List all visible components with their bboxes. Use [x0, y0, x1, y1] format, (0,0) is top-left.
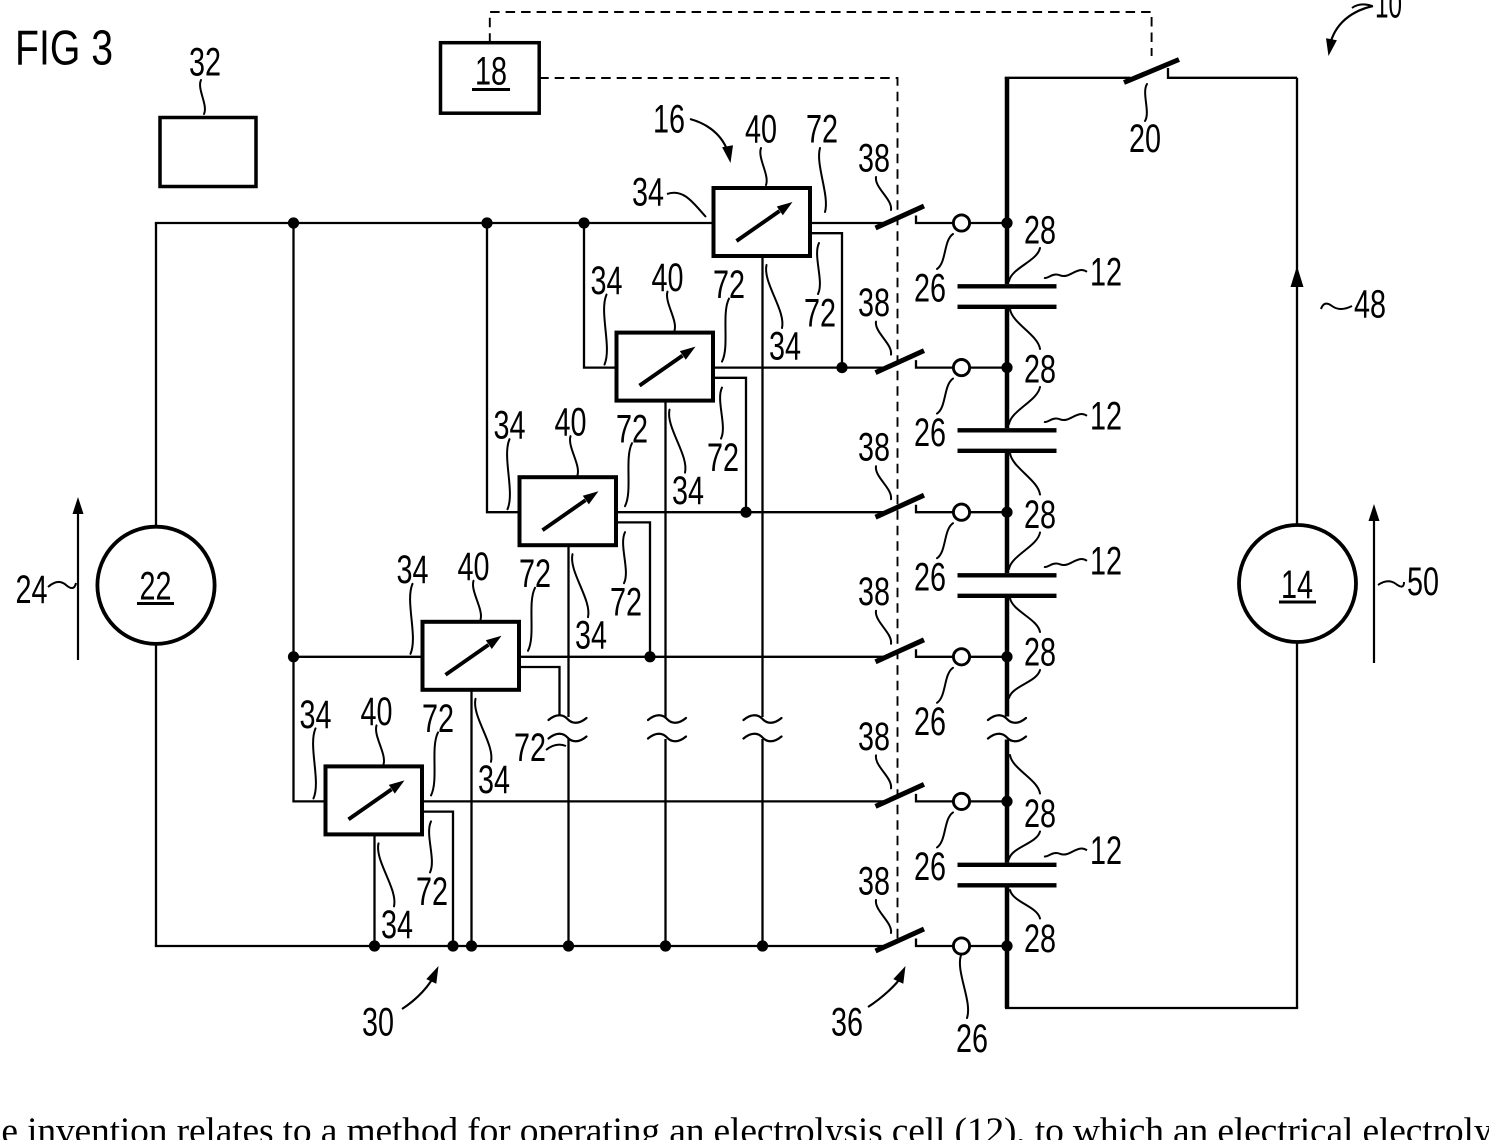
leader 72 converter 2: [722, 299, 729, 362]
svg-text:34: 34: [478, 758, 510, 802]
label 26 row 4: [914, 700, 946, 744]
terminal circle 26 row 1: [953, 215, 969, 231]
tilde leader 50: [1378, 581, 1404, 586]
svg-text:28: 28: [1024, 208, 1056, 252]
wire circle 26 to cell stack row 3: [970, 511, 1007, 513]
leader 34 converter 1: [667, 193, 706, 217]
label 72 output converter 4: [519, 552, 551, 596]
svg-text:26: 26: [914, 700, 946, 744]
label 26 row 2: [914, 411, 946, 455]
converter 16 unit 5 box: [326, 766, 423, 834]
tilde before 10: [1352, 4, 1372, 8]
svg-text:12: 12: [1090, 394, 1122, 438]
break symbol on converter 2 wire: [648, 715, 686, 741]
leader 38 row 3: [876, 466, 891, 499]
branch wire to converter 4: [294, 656, 423, 658]
node cell stack tap row 4: [1001, 651, 1012, 662]
leader 28 row 4 down: [1009, 670, 1040, 698]
leader 72 converter 3: [625, 443, 632, 506]
label 26 row 5: [914, 845, 946, 889]
leader 28 row 3 up: [1010, 453, 1040, 495]
leader 34 converter 5: [313, 728, 316, 798]
arrow from 10 into circuit: [1326, 6, 1373, 56]
switch 20 blade: [1124, 60, 1179, 83]
converter 16 unit 1 box: [714, 188, 811, 256]
label 34 second input converter 1: [769, 324, 801, 368]
cell stack bus segment y77-284: [1005, 78, 1010, 284]
leader 34 converter 4: [410, 584, 413, 654]
svg-text:26: 26: [914, 556, 946, 600]
wire converter 5 output to switch 5: [422, 800, 884, 802]
svg-text:18: 18: [475, 49, 507, 93]
converter 16 unit 4 box: [423, 622, 520, 690]
leader 28 row 5 up: [1010, 755, 1040, 794]
svg-text:10: 10: [1375, 0, 1402, 27]
wire converter 2 output to switch 2: [713, 366, 884, 368]
label 34 second input converter 5: [381, 903, 413, 947]
wire converter 1 output to switch 1: [810, 222, 884, 224]
label 38 row 2: [858, 281, 890, 325]
label 28 row 2: [1024, 347, 1056, 391]
switch 38 blade row 6: [876, 929, 925, 951]
svg-text:26: 26: [956, 1017, 988, 1061]
node converter 3 second input on bottom bus: [563, 940, 574, 951]
adjustability arrow inside converter 2: [640, 347, 696, 386]
label 24: [16, 568, 48, 612]
leader 28 row 1 down: [1009, 248, 1040, 281]
label 34 input converter 3: [494, 404, 526, 448]
leader 12 cell 3: [1044, 559, 1087, 567]
wire 72 lower output of converter 4 (to break): [519, 667, 560, 716]
svg-text:16: 16: [653, 97, 685, 141]
wire 34 second input of converter 3 (lower part): [567, 739, 569, 946]
switch 38 contact row 3: [916, 505, 953, 513]
svg-text:72: 72: [514, 726, 546, 770]
node converter 4 second input on bottom bus: [466, 940, 477, 951]
svg-text:26: 26: [914, 411, 946, 455]
wire circle 26 to cell stack row 4: [970, 656, 1007, 658]
terminal circle 26 row 5: [953, 793, 969, 809]
label 48: [1354, 282, 1386, 326]
leader 40 converter 1: [760, 148, 766, 185]
svg-text:26: 26: [914, 266, 946, 310]
label 12 cell 4: [1090, 829, 1122, 873]
svg-text:The invention relates to a met: The invention relates to a method for op…: [0, 1111, 1489, 1140]
label 34 input converter 2: [591, 259, 623, 303]
svg-text:50: 50: [1407, 560, 1439, 604]
label 72 lower output converter 5: [416, 870, 448, 914]
leader 40 converter 4: [473, 581, 481, 620]
switch 38 blade row 3: [876, 495, 925, 517]
wire source 22 top to top bus: [155, 223, 157, 527]
svg-text:22: 22: [140, 564, 172, 608]
label 34 input converter 4: [397, 548, 429, 592]
label 30: [362, 1000, 394, 1044]
arrow 16 to converter 1: [690, 119, 733, 163]
wire 34 second input of converter 1 (lower part): [761, 739, 763, 946]
wire 34 second input of converter 5: [373, 833, 375, 946]
svg-text:34: 34: [769, 324, 801, 368]
dashed control line 18 to switches 38: [539, 78, 897, 944]
wire 34 second input of converter 2 (upper part): [664, 400, 666, 717]
leader 26 row 1: [937, 234, 953, 269]
node converter 1 output joins row 2: [836, 362, 847, 373]
switch 38 contact row 1: [916, 216, 953, 224]
wire 72 lower output of converter 5 to bottom bus: [422, 812, 454, 946]
label 34 second input converter 3: [575, 614, 607, 658]
bottom return wire: [1005, 1007, 1298, 1009]
label 38 row 4: [858, 570, 890, 614]
label 38 row 1: [858, 136, 890, 180]
node converter 2 output joins row 3: [740, 507, 751, 518]
svg-text:26: 26: [914, 845, 946, 889]
leader 34 second input converter 3: [572, 554, 588, 617]
electrolysis cell 12 number 2 plates: [958, 430, 1057, 451]
label 72 lower output converter 3: [610, 581, 642, 625]
leader 34 second input converter 1: [766, 265, 782, 328]
node converter 2 second input on bottom bus: [660, 940, 671, 951]
leader 34 second input converter 2: [669, 410, 685, 473]
leader 26 row 3: [937, 523, 953, 558]
svg-text:72: 72: [806, 107, 838, 151]
feeder wire to converter 3: [487, 223, 520, 512]
label 38 row 6: [858, 859, 890, 903]
label 72 lower output converter 2: [707, 436, 739, 480]
converter 16 unit 2 box: [617, 333, 714, 401]
wire source 22 bottom to bottom bus: [155, 644, 157, 946]
svg-text:28: 28: [1024, 917, 1056, 961]
svg-text:28: 28: [1024, 493, 1056, 537]
svg-text:34: 34: [632, 170, 664, 214]
wire converter 4 output to switch 4: [519, 656, 884, 658]
switch 38 blade row 1: [876, 206, 925, 228]
electrolyser supply circle 14: [1239, 525, 1356, 642]
wire 34 second input of converter 2 (lower part): [664, 739, 666, 946]
svg-text:38: 38: [858, 859, 890, 903]
leader 38 row 5: [876, 755, 891, 788]
cell stack bus segment y598-716: [1005, 598, 1010, 717]
label 26 row 1: [914, 266, 946, 310]
svg-text:38: 38: [858, 715, 890, 759]
label 72 output converter 2: [713, 263, 745, 307]
label 36: [831, 1000, 863, 1044]
switch 38 blade row 5: [876, 784, 925, 806]
terminal circle 26 row 2: [953, 360, 969, 376]
svg-text:72: 72: [610, 581, 642, 625]
wire 72 lower output of converter 2: [713, 378, 747, 512]
leader 28 row 4 up: [1010, 598, 1040, 632]
label 72 output converter 3: [616, 408, 648, 452]
node on top bus x=293: [288, 217, 299, 228]
node cell stack tap row 2: [1001, 362, 1012, 373]
svg-text:38: 38: [858, 136, 890, 180]
label 38 row 5: [858, 715, 890, 759]
svg-text:38: 38: [858, 570, 890, 614]
label 40 converter 3: [555, 401, 587, 445]
label 38 row 3: [858, 426, 890, 470]
label 72 lower output converter 1: [804, 291, 836, 335]
leader 72 lower converter 1: [817, 243, 820, 294]
leader 72 converter 4: [528, 588, 535, 651]
switch 38 contact row 6: [916, 939, 953, 947]
svg-text:24: 24: [16, 568, 48, 612]
adjustability arrow inside converter 3: [543, 491, 599, 530]
leader 34 converter 3: [507, 439, 510, 509]
adjustability arrow inside converter 4: [446, 636, 502, 675]
label 34 second input converter 4: [478, 758, 510, 802]
label 26 row 3: [914, 556, 946, 600]
leader 40 converter 5: [376, 725, 384, 764]
node converter 5 output on bottom bus: [447, 940, 458, 951]
svg-text:48: 48: [1354, 282, 1386, 326]
voltage source 22 circle: [97, 527, 214, 644]
svg-text:34: 34: [381, 903, 413, 947]
leader 40 converter 2: [667, 292, 675, 331]
label 28 row 6: [1024, 917, 1056, 961]
label 50: [1407, 560, 1439, 604]
svg-text:28: 28: [1024, 347, 1056, 391]
controller box 32: [160, 118, 256, 187]
label 72 output converter 5: [422, 697, 454, 741]
switch 38 blade row 4: [876, 640, 925, 662]
svg-text:72: 72: [804, 291, 836, 335]
switch 38 blade row 2: [876, 351, 925, 373]
label 22 (underlined): [137, 564, 174, 608]
cell stack bus segment y453-573: [1005, 453, 1010, 573]
adjustability arrow inside converter 1: [737, 202, 793, 241]
feeder wire to converter 2: [584, 223, 618, 368]
svg-text:28: 28: [1024, 792, 1056, 836]
node on top bus x=584: [578, 217, 589, 228]
wire 34 second input of converter 3 (upper part): [567, 544, 569, 717]
node on top bus x=487: [481, 217, 492, 228]
svg-text:34: 34: [672, 469, 704, 513]
label 40 converter 1: [745, 107, 777, 151]
wire cell stack top to switch 20: [1005, 77, 1131, 79]
leader 26 row 5: [937, 812, 953, 847]
leader 12 cell 1: [1044, 270, 1087, 278]
label 12 cell 2: [1090, 394, 1122, 438]
svg-text:14: 14: [1281, 563, 1313, 607]
leader 38 row 2: [876, 322, 891, 355]
electrolysis cell 12 number 4 plates: [958, 865, 1057, 886]
node cell stack tap row 3: [1001, 507, 1012, 518]
node cell stack tap row 6: [1001, 940, 1012, 951]
leader 26 row 6: [960, 955, 968, 1018]
wire circle 26 to cell stack row 6: [970, 945, 1007, 947]
leader 72 converter 5: [431, 732, 438, 795]
svg-text:FIG 3: FIG 3: [15, 22, 113, 76]
label 34 input converter 1: [632, 170, 664, 214]
right loop wire from 14 to bottom: [1296, 642, 1298, 1008]
leader 38 row 1: [876, 177, 891, 210]
leader 28 row 5 down: [1009, 832, 1040, 860]
label 12 cell 1: [1090, 250, 1122, 294]
label 40 converter 2: [652, 256, 684, 300]
leader 38 row 6: [876, 900, 891, 933]
leader 34 second input converter 4: [475, 699, 491, 762]
leader 72 converter 1: [819, 148, 826, 212]
switch 38 contact row 2: [916, 360, 953, 368]
label 40 converter 5: [361, 690, 393, 734]
label 32: [189, 40, 221, 84]
label 10: [1375, 0, 1402, 27]
right loop wire down to electrolyser 14: [1296, 78, 1298, 526]
svg-text:30: 30: [362, 1000, 394, 1044]
leader 72 lower converter 3: [623, 532, 626, 583]
wire converter 3 output to switch 3: [616, 511, 884, 513]
dashed control line 18 to switch 20: [490, 12, 1152, 56]
label 72 at break: [514, 726, 546, 770]
svg-text:12: 12: [1090, 539, 1122, 583]
tilde leader 48: [1321, 304, 1352, 309]
terminal circle 26 row 3: [953, 504, 969, 520]
leader 72 lower converter 2: [720, 388, 723, 439]
cell stack bus segment y739-862: [1005, 740, 1010, 863]
label 40 converter 4: [458, 545, 490, 589]
svg-text:72: 72: [707, 436, 739, 480]
wire circle 26 to cell stack row 2: [970, 366, 1007, 368]
label 12 cell 3: [1090, 539, 1122, 583]
svg-text:36: 36: [831, 1000, 863, 1044]
label 72 output converter 1: [806, 107, 838, 151]
label 34 second input converter 2: [672, 469, 704, 513]
leader 34 second input converter 5: [378, 843, 394, 906]
terminal circle 26 row 6: [953, 938, 969, 954]
wire circle 26 to cell stack row 5: [970, 800, 1007, 802]
leader 40 converter 3: [570, 436, 578, 475]
leader 28 row 3 down: [1009, 533, 1040, 570]
adjustability arrow inside converter 5: [349, 780, 405, 819]
leader 28 row 2 down: [1009, 387, 1040, 424]
break symbol on converter 1 wire: [744, 715, 782, 741]
leader 34 converter 2: [604, 295, 607, 365]
svg-text:34: 34: [575, 614, 607, 658]
switch 38 contact row 4: [916, 649, 953, 657]
node cell stack tap row 5: [1001, 796, 1012, 807]
label 16: [653, 97, 685, 141]
figure title FIG 3: [15, 22, 113, 76]
leader 12 cell 4: [1044, 849, 1087, 857]
arrow 36 to switch bank: [868, 966, 906, 1007]
cell stack bus segment y309-428: [1005, 309, 1010, 428]
node converter 1 second input on bottom bus: [757, 940, 768, 951]
electrolysis cell 12 number 1 plates: [958, 286, 1057, 307]
label 18 (underlined): [472, 49, 510, 93]
leader 26 row 4: [937, 668, 953, 703]
arrow 24 (input voltage): [73, 497, 84, 660]
leader 72 lower converter 5: [429, 821, 432, 872]
arrow 50 (output voltage): [1369, 504, 1380, 663]
leader from label 32 to box 32: [200, 80, 205, 114]
leader 26 row 2: [937, 379, 953, 414]
svg-text:38: 38: [858, 281, 890, 325]
label 14 (underlined): [1279, 563, 1316, 607]
leader 28 row 2 up: [1010, 309, 1040, 349]
bottom input bus: [155, 945, 884, 947]
svg-text:12: 12: [1090, 250, 1122, 294]
tilde leader 72 at break: [546, 745, 566, 750]
label 28 row 4: [1024, 630, 1056, 674]
svg-text:28: 28: [1024, 630, 1056, 674]
break symbol on cell stack bus: [988, 715, 1026, 741]
converter 16 unit 3 box: [520, 477, 617, 545]
terminal circle 26 row 4: [953, 649, 969, 665]
leader 12 cell 2: [1044, 414, 1087, 422]
cell stack bus segment y887-1008: [1005, 888, 1010, 1009]
top input bus: [155, 222, 714, 224]
caption text (clipped): [0, 1111, 1489, 1140]
switch 20 contact: [1168, 68, 1297, 78]
svg-text:32: 32: [189, 40, 221, 84]
current direction arrowhead 48: [1291, 266, 1304, 287]
svg-text:38: 38: [858, 426, 890, 470]
arrow 30 to bottom bus: [402, 966, 439, 1009]
label 28 row 3: [1024, 493, 1056, 537]
svg-text:20: 20: [1129, 117, 1161, 161]
wire 34 second input of converter 1 (upper part): [761, 255, 763, 717]
cell stack bus to bottom return: [1006, 943, 1008, 1008]
leader 20: [1145, 84, 1147, 121]
node converter 5 second input on bottom bus: [369, 940, 380, 951]
node converter 3 output joins row 4: [644, 651, 655, 662]
leader 28 row 6 up: [1010, 890, 1040, 919]
wire circle 26 to cell stack row 1: [970, 222, 1007, 224]
node cell stack tap row 1: [1001, 217, 1012, 228]
wire 72 lower output of converter 1: [810, 233, 843, 367]
control unit U18 box: [441, 43, 540, 114]
svg-text:72: 72: [416, 870, 448, 914]
leader 38 row 4: [876, 611, 891, 644]
label 34 input converter 5: [300, 693, 332, 737]
break symbol on converter3/4 wires: [549, 715, 587, 741]
label 26 row 6: [956, 1017, 988, 1061]
wire 34 second input of converter 4: [470, 689, 472, 946]
svg-text:12: 12: [1090, 829, 1122, 873]
feeder wire to converters 4 and 5: [294, 223, 326, 801]
node feeder/converter4 junction: [288, 651, 299, 662]
label 20: [1129, 117, 1161, 161]
wire 72 lower output of converter 3: [616, 522, 651, 656]
svg-text:40: 40: [745, 107, 777, 151]
tilde leader 24: [48, 582, 76, 588]
switch 38 contact row 5: [916, 794, 953, 802]
electrolysis cell 12 number 3 plates: [958, 575, 1057, 596]
label 28 row 5: [1024, 792, 1056, 836]
label 28 row 1: [1024, 208, 1056, 252]
